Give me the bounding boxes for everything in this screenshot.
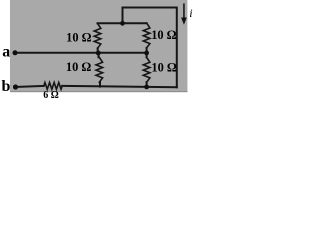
svg-text:i: i — [189, 6, 192, 20]
svg-text:a: a — [2, 44, 10, 61]
svg-text:10 Ω: 10 Ω — [66, 31, 91, 45]
svg-text:6 Ω: 6 Ω — [43, 90, 59, 101]
svg-text:10 Ω: 10 Ω — [66, 60, 91, 74]
svg-text:10 Ω: 10 Ω — [151, 61, 176, 75]
svg-text:10 Ω: 10 Ω — [151, 28, 176, 42]
svg-text:b: b — [1, 78, 10, 95]
